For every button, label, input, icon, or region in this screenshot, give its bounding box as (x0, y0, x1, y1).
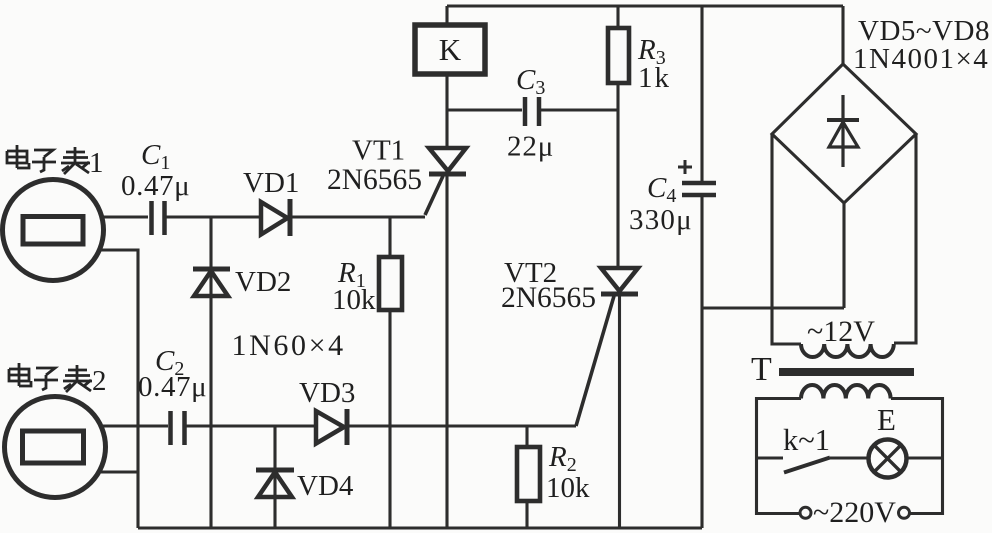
svg-text:330μ: 330μ (629, 204, 693, 236)
lamp E (869, 440, 907, 478)
wire VD3 to VT2 gate (347, 424, 576, 427)
wire C3 left branch (447, 108, 522, 111)
wire C4 to bridge bottom (702, 306, 844, 309)
transformer T primary winding ~12V (801, 344, 894, 357)
svg-text:VD3: VD3 (299, 377, 355, 409)
wire bridge right AC down (894, 134, 916, 343)
svg-text:0.47μ: 0.47μ (138, 371, 207, 403)
diode VD2 (193, 269, 230, 296)
wire bridge left AC down (772, 134, 801, 344)
svg-text:1k: 1k (638, 62, 671, 94)
resistor R2 (525, 426, 528, 446)
wire K to top bus (445, 6, 448, 25)
svg-text:10k: 10k (332, 284, 376, 316)
svg-text:1N60×4: 1N60×4 (232, 329, 346, 362)
svg-text:2: 2 (92, 365, 107, 397)
wire C4 top (700, 6, 703, 181)
wire K to VT1 anode (445, 72, 448, 148)
capacitor C1 (152, 201, 165, 235)
bridge rectifier VD5~VD8 (772, 64, 916, 203)
wire C4 bottom (700, 195, 703, 528)
wire bottom bus (138, 526, 702, 529)
svg-text:10k: 10k (546, 472, 590, 504)
wire watch2 to C2 (103, 424, 168, 427)
svg-text:K: K (439, 32, 462, 67)
diode VD4 (273, 426, 276, 528)
svg-text:C1: C1 (141, 139, 170, 174)
resistor R1 (388, 217, 391, 255)
wire C1 to VD1 (166, 215, 261, 218)
wire top bus (447, 4, 843, 7)
node junction C1-VD1-VD2 (209, 217, 212, 528)
wire VD1 output to VT1 gate (292, 215, 425, 218)
electronic watch 2 (5, 397, 106, 498)
wire top bus to bridge (841, 6, 844, 64)
svg-text:~220V: ~220V (813, 496, 896, 529)
svg-text:2N6565: 2N6565 (327, 164, 422, 196)
wire watch1 second terminal (99, 250, 138, 528)
svg-text:k~1: k~1 (783, 423, 830, 457)
wire C3 right branch (541, 108, 618, 111)
svg-text:~12V: ~12V (807, 315, 875, 348)
electronic watch 1 (3, 180, 104, 281)
wire watch1 to C1 (100, 215, 148, 218)
wire 220V loop box (757, 399, 802, 514)
svg-text:1: 1 (89, 147, 104, 179)
capacitor C3 (525, 97, 539, 126)
svg-text:E: E (877, 402, 896, 437)
svg-text:22μ: 22μ (507, 131, 554, 163)
transformer T secondary winding (801, 385, 891, 399)
diode VD3 (316, 409, 347, 445)
terminal left ~220V (800, 507, 811, 518)
terminal right ~220V (899, 507, 910, 518)
wire C2 to VD3 (185, 424, 316, 427)
svg-text:VD2: VD2 (235, 266, 291, 298)
svg-text:C3: C3 (516, 64, 545, 99)
thyristor VT2 (576, 268, 638, 426)
transformer T core (779, 368, 914, 376)
label electronic watch 2 (9, 363, 92, 392)
svg-text:R2: R2 (548, 441, 577, 476)
switch k~1 (757, 456, 784, 459)
diode VD1 (261, 199, 290, 236)
svg-text:VD4: VD4 (297, 470, 354, 502)
resistor R3 (616, 6, 619, 28)
svg-text:2N6565: 2N6565 (501, 282, 596, 314)
svg-text:C4: C4 (647, 172, 676, 207)
svg-text:VT1: VT1 (352, 135, 405, 167)
label electronic watch 1 (7, 145, 90, 174)
wire bridge bottom output (842, 203, 845, 308)
relay K (415, 25, 485, 74)
capacitor C4 (682, 183, 716, 195)
svg-text:T: T (751, 351, 772, 388)
wire VT1 cathode down (445, 176, 448, 528)
thyristor VT1 (425, 148, 466, 215)
svg-text:0.47μ: 0.47μ (121, 170, 190, 202)
svg-text:1N4001×4: 1N4001×4 (853, 43, 989, 75)
capacitor C2 (171, 411, 185, 445)
wire watch2 second terminal (101, 470, 138, 473)
wire VT2 cathode down (618, 296, 621, 528)
svg-text:VD1: VD1 (243, 167, 299, 199)
wire lamp to box right (907, 456, 943, 459)
